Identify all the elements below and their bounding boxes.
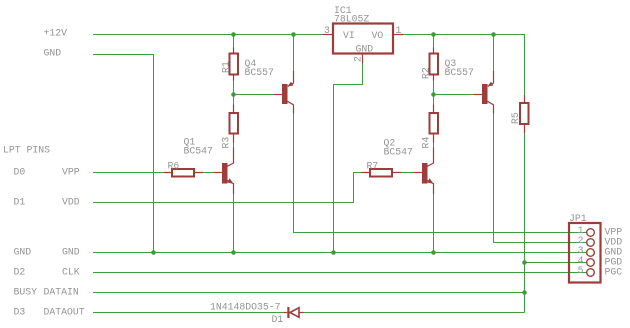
svg-text:GND: GND — [44, 48, 62, 59]
wire R4 top net — [433, 95, 435, 105]
svg-text:GND: GND — [356, 44, 374, 55]
wire R1 top net — [233, 35, 235, 48]
svg-text:R1: R1 — [221, 61, 232, 73]
wire Q4 emitter to +12V rail — [293, 35, 295, 72]
junction GND row / GND label drop — [151, 250, 156, 255]
svg-text:R4: R4 — [421, 137, 432, 149]
svg-text:BC557: BC557 — [445, 67, 475, 78]
junction node A (R1/R3/Q4 base) — [231, 92, 236, 97]
junction GND row / IC1 GND — [331, 250, 336, 255]
svg-text:LPT PINS: LPT PINS — [3, 145, 50, 156]
IC1 pin 2 stub — [362, 54, 364, 64]
svg-text:1: 1 — [396, 25, 402, 36]
wire R7 to Q2 base — [402, 172, 414, 174]
wire IC1 GND pin 2 down to GND row — [334, 64, 363, 253]
wire node B to Q3 base — [434, 94, 474, 96]
svg-text:+12V: +12V — [44, 28, 68, 39]
wire R2 top net — [433, 35, 435, 48]
wire R3 bottom to Q1 collector — [233, 143, 235, 148]
svg-text:D2: D2 — [14, 267, 26, 278]
diode D1 1N4148DO35-7 — [210, 302, 304, 326]
connector JP1 — [569, 213, 601, 283]
svg-text:VI: VI — [343, 30, 355, 41]
JP1 pin 3 — [587, 249, 595, 257]
svg-text:R3: R3 — [221, 137, 232, 149]
svg-text:CLK: CLK — [62, 267, 80, 278]
svg-text:DATAIN: DATAIN — [44, 287, 79, 298]
resistor R6 — [163, 161, 203, 177]
junction PGD node / pin4 row — [522, 260, 527, 265]
transistor Q2 BC547 — [384, 138, 434, 195]
svg-text:R7: R7 — [367, 161, 379, 172]
wire GND row to JP1 pin 3 — [93, 252, 587, 254]
wire D2/CLK row to JP1 pin 5 (PGC net) — [93, 272, 587, 274]
resistor R4 — [421, 105, 439, 149]
resistor R3 — [221, 105, 239, 149]
resistor R5 — [510, 95, 529, 134]
wire Q3 collector down and right to JP1 pin 2 (VDD net) — [494, 114, 587, 243]
svg-text:PGC: PGC — [605, 267, 623, 278]
IC1 pin 1 stub — [393, 34, 403, 36]
junction +12V/Q4 emitter — [291, 32, 296, 37]
JP1 pin 4 — [587, 259, 595, 267]
wire LPT D1/VDD row up to R7 — [93, 173, 362, 203]
svg-text:D1: D1 — [14, 197, 26, 208]
IC1 pin 3 stub — [323, 34, 334, 36]
wire R2 bottom net to node B — [433, 81, 435, 95]
svg-text:BC557: BC557 — [245, 67, 275, 78]
svg-text:D1: D1 — [272, 314, 284, 325]
svg-text:GND: GND — [14, 247, 32, 258]
svg-text:GND: GND — [62, 247, 80, 258]
svg-text:DATAOUT: DATAOUT — [44, 307, 85, 318]
wire +5V rail from IC1 VO to R5 — [403, 35, 525, 96]
resistor R1 — [221, 48, 239, 81]
wire Q4 collector down and right to JP1 pin 1 (VPP net) — [294, 114, 587, 233]
wire D3/DATAOUT row to diode D1 — [93, 312, 284, 314]
wire diode D1 to PGD node vertical — [304, 312, 525, 314]
svg-text:BUSY: BUSY — [14, 287, 38, 298]
svg-text:R5: R5 — [510, 112, 521, 124]
svg-text:VDD: VDD — [62, 197, 80, 208]
wire R5 bottom / PGD node vertical — [524, 134, 526, 313]
wire LPT D0 row to R6 — [93, 172, 163, 174]
JP1 pin 1 — [587, 229, 595, 237]
wire Q1 emitter down to GND row — [233, 194, 235, 253]
JP1 pin 2 — [587, 239, 595, 247]
transistor Q4 BC557 — [245, 58, 294, 114]
wire node A to Q4 base — [234, 94, 274, 96]
svg-text:78L05Z: 78L05Z — [334, 14, 369, 25]
svg-text:VPP: VPP — [62, 167, 80, 178]
svg-text:BC547: BC547 — [384, 147, 414, 158]
wire R1 bottom net to node A — [233, 81, 235, 95]
junction +5V/R2 — [431, 32, 436, 37]
wire Q2 emitter down to GND row — [433, 194, 435, 253]
junction +12V/R1 — [231, 32, 236, 37]
wire GND from label down to GND row — [93, 55, 154, 253]
svg-text:D0: D0 — [14, 167, 26, 178]
wire BUSY/DATAIN row to PGD node — [93, 292, 525, 294]
junction GND row / Q2 emitter — [431, 250, 436, 255]
wire Q3 emitter to +5V rail — [493, 35, 495, 72]
svg-text:2: 2 — [353, 56, 364, 62]
wire R4 bottom to Q2 collector — [433, 143, 435, 148]
junction GND row / Q1 emitter — [231, 250, 236, 255]
svg-text:3: 3 — [324, 25, 330, 36]
svg-text:R6: R6 — [168, 161, 180, 172]
svg-text:D3: D3 — [14, 307, 26, 318]
wire PGD node to JP1 pin 4 — [525, 262, 587, 264]
junction node B (R2/R4/Q3 base) — [431, 92, 436, 97]
JP1 pin 5 — [587, 269, 595, 277]
svg-text:VO: VO — [372, 30, 384, 41]
junction PGD node / DATAIN row — [522, 290, 527, 295]
op-amp/regulator IC1 78L05Z box — [333, 5, 393, 55]
svg-text:1N4148DO35-7: 1N4148DO35-7 — [210, 302, 281, 313]
transistor Q1 BC547 — [184, 137, 234, 195]
wire R6 to Q1 base — [203, 172, 213, 174]
transistor Q3 BC557 — [445, 58, 494, 114]
junction +5V/Q3 emitter — [491, 32, 496, 37]
resistor R2 — [421, 48, 439, 81]
wire +12V rail — [93, 34, 323, 36]
resistor R7 — [362, 161, 402, 177]
wire R3 top net — [233, 95, 235, 105]
svg-text:BC547: BC547 — [184, 146, 214, 157]
svg-text:5: 5 — [578, 265, 584, 276]
svg-text:R2: R2 — [421, 67, 432, 79]
